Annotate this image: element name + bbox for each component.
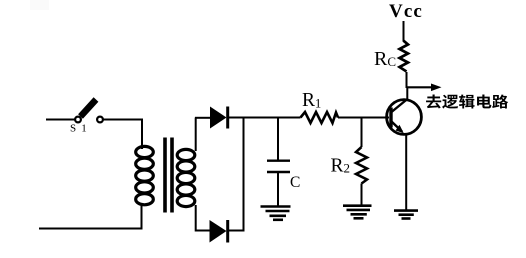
wire rectifier output vertical [243, 117, 245, 232]
svg-text:S 1: S 1 [70, 123, 88, 135]
label: to logic circuit (去逻辑电路) [426, 94, 508, 108]
wire output rail to R1 [244, 117, 301, 119]
transistor Q1 [387, 99, 422, 135]
arrow to logic circuit [407, 84, 442, 92]
svg-text:C: C [290, 174, 300, 191]
wire R1 to base [338, 117, 389, 119]
wire D1 cathode to output node [229, 117, 245, 119]
transformer primary winding [136, 119, 154, 230]
wire secondary bottom lead to D2 [195, 230, 210, 232]
resistor R1 [301, 90, 339, 123]
transformer secondary winding [177, 118, 196, 232]
wire D2 cathode to output node [229, 230, 245, 232]
ground below capacitor [261, 207, 291, 220]
diode D1 [210, 107, 228, 129]
resistor RC [374, 41, 408, 72]
wire RC bottom to collector junction [406, 72, 408, 88]
diode D2 [210, 220, 228, 243]
resistor R2 [331, 117, 368, 207]
ground below emitter [394, 211, 418, 219]
switch S1 [70, 100, 103, 135]
wire AC input top [46, 119, 75, 121]
transformer core [163, 138, 174, 213]
wire switch to transformer [103, 119, 143, 121]
wire secondary top lead to D1 [195, 117, 211, 119]
wire AC input bottom [39, 228, 143, 230]
svg-text:Vcc: Vcc [389, 1, 423, 22]
wire collector up [406, 87, 408, 100]
wire RC to Vcc [403, 21, 405, 42]
capacitor C [267, 118, 300, 207]
wire emitter down [405, 135, 407, 210]
ground below R2 [343, 206, 372, 219]
